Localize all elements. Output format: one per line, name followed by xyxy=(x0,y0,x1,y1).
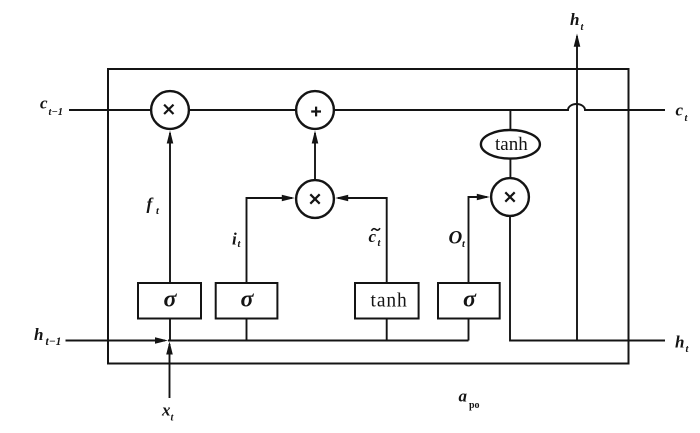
svg-text:po: po xyxy=(469,400,480,411)
svg-text:t: t xyxy=(686,344,690,355)
add node xyxy=(296,91,334,129)
wire O_t from sigma box 3 up and right into output multiply node with arrowhead xyxy=(469,194,490,283)
sigma box 1 (forget gate) xyxy=(138,283,201,319)
svg-text:t: t xyxy=(171,413,175,424)
svg-text:h: h xyxy=(675,333,684,352)
tanh box (candidate) xyxy=(355,283,419,319)
label x_t xyxy=(161,401,175,424)
svg-text:O: O xyxy=(449,228,463,249)
wire c line from add node to c_t output with hop over h_t line xyxy=(335,104,665,110)
svg-text:h: h xyxy=(34,325,43,344)
svg-text:h: h xyxy=(570,10,579,29)
svg-text:σ: σ xyxy=(241,287,255,313)
sigma box 3 (output gate) xyxy=(438,283,500,319)
label h_{t-1} xyxy=(34,325,61,348)
wire from output multiply node down and right to h_t output xyxy=(510,217,665,341)
wire sigma box 1 bottom connector xyxy=(169,319,171,341)
wire h_{t-1} input line with arrowhead into x_t junction xyxy=(66,337,169,344)
svg-text:t: t xyxy=(378,238,382,249)
svg-text:f: f xyxy=(147,195,155,214)
svg-text:tanh: tanh xyxy=(495,134,528,155)
svg-text:σ: σ xyxy=(164,287,178,313)
wire i_t from sigma box 2 up and right into mid multiply node with arrowhead xyxy=(247,195,295,283)
svg-text:tanh: tanh xyxy=(371,291,408,312)
wire h_t vertical output up through box with arrowhead xyxy=(574,34,581,341)
wire sigma box 3 bottom connector xyxy=(468,319,470,341)
wire recurrent line from x_t junction to sigma box 3 connector xyxy=(168,340,469,342)
label c_{t-1} xyxy=(40,94,63,119)
svg-text:x: x xyxy=(161,401,171,420)
tanh ellipse xyxy=(481,130,540,159)
label O_t xyxy=(449,228,467,251)
svg-text:t: t xyxy=(238,239,242,250)
wire tanh box bottom connector xyxy=(386,319,388,341)
svg-text:i: i xyxy=(232,230,237,249)
svg-text:c: c xyxy=(676,101,684,120)
wire c input from c_{t-1} label to multiply node xyxy=(69,109,151,111)
svg-text:t: t xyxy=(156,206,160,217)
label i_t xyxy=(232,230,242,251)
svg-text:σ: σ xyxy=(463,287,477,313)
wire sigma box 2 bottom connector xyxy=(246,319,248,341)
svg-text:a: a xyxy=(459,387,468,406)
label h_t right output xyxy=(675,333,690,356)
wire c line between multiply and add nodes xyxy=(190,109,296,111)
multiply node (input gate product) xyxy=(296,180,334,218)
multiply node (forget gate product) xyxy=(151,91,189,129)
wire from tanh ellipse down to output multiply node xyxy=(509,159,511,178)
label f_t xyxy=(147,195,161,218)
label a_po figure caption xyxy=(459,387,480,412)
svg-text:t: t xyxy=(462,239,466,250)
wire x_t input from below with arrowhead up into junction xyxy=(166,342,173,399)
wire f_t from sigma box 1 up into multiply node with arrowhead xyxy=(167,131,174,284)
sigma box 2 (input gate) xyxy=(216,283,278,319)
wire from mid multiply node up into add node with arrowhead xyxy=(312,131,319,180)
multiply node (output gate product) xyxy=(491,178,529,216)
label c_t xyxy=(676,101,689,125)
label h_t top output xyxy=(570,10,585,33)
svg-text:t: t xyxy=(581,22,585,33)
cell boundary box xyxy=(108,69,629,364)
svg-text:t: t xyxy=(685,113,689,124)
wire from c line down to tanh ellipse xyxy=(509,110,511,131)
svg-text:t−1: t−1 xyxy=(46,336,62,348)
label c~_t (candidate cell state) xyxy=(369,227,382,249)
svg-text:t−1: t−1 xyxy=(49,107,64,118)
wire c~_t from tanh box up and left into mid multiply node with arrowhead xyxy=(335,195,387,283)
svg-text:c: c xyxy=(40,94,48,113)
